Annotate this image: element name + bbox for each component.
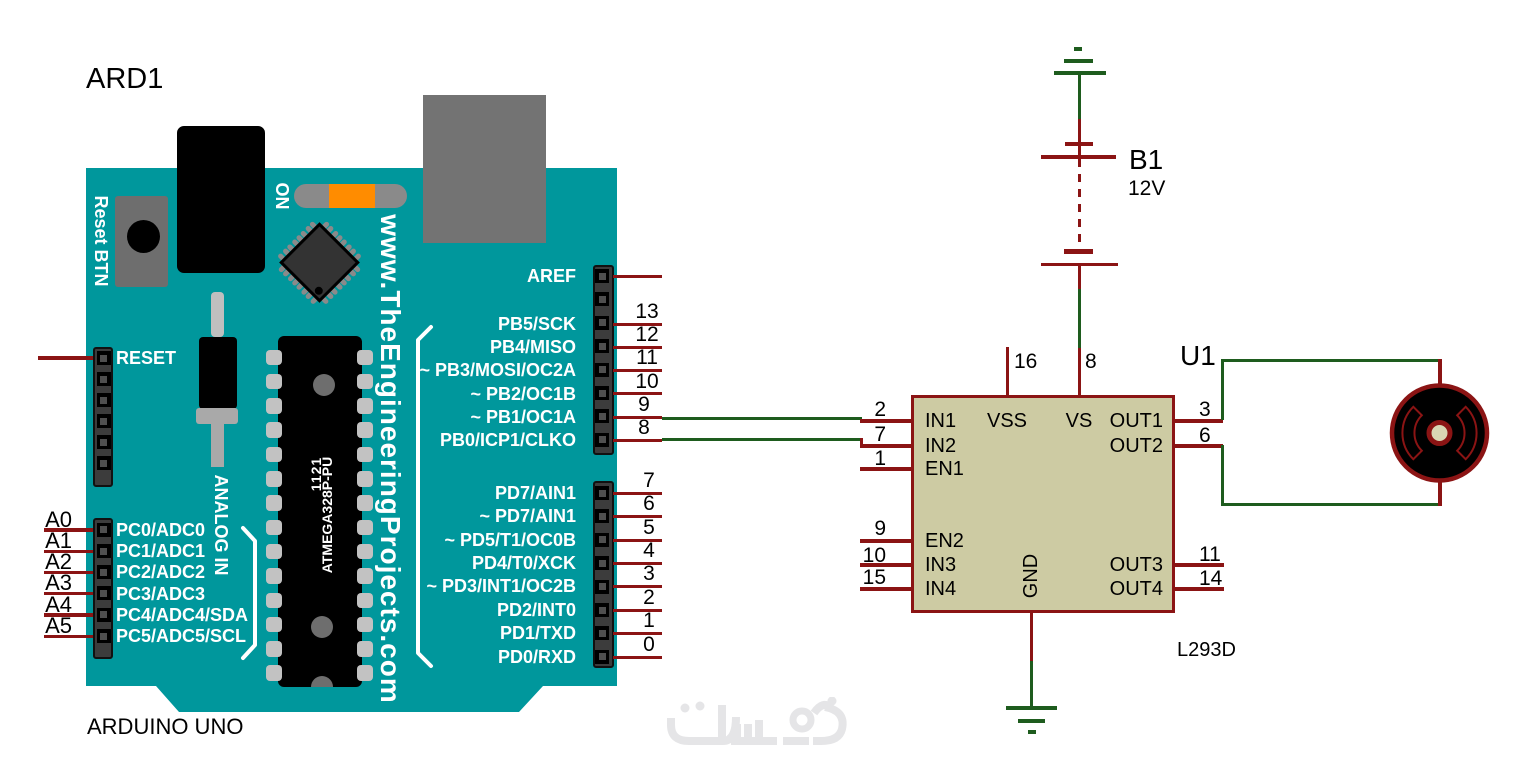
- pin OUT4 stub U1: [1175, 587, 1224, 591]
- label 12: [627, 324, 667, 346]
- label 5: [629, 517, 669, 539]
- power symbol top (ground flipped): [1054, 71, 1106, 75]
- header ANALOG A0-A5: [93, 518, 113, 659]
- pin 7 stub: [613, 492, 662, 495]
- capacitor rod: [211, 292, 224, 337]
- label pin16: [1014, 351, 1054, 373]
- wire power to battery green: [1078, 73, 1081, 119]
- label VS: [1044, 410, 1114, 433]
- battery B1: [1065, 142, 1093, 147]
- label PD0/RXD: [376, 648, 576, 667]
- DIP chip pads left: [266, 350, 282, 366]
- wire A3: [44, 592, 93, 596]
- label A2: [30, 551, 72, 573]
- pin IN1 stub U1: [860, 419, 911, 423]
- pin 2 stub: [613, 609, 662, 612]
- pin 13 stub: [613, 323, 662, 326]
- label PD7/AIN1: [376, 484, 576, 503]
- label PC3/ADC3: [116, 585, 205, 604]
- pin 8 stub: [613, 439, 662, 442]
- label 10: [627, 371, 667, 393]
- reset button: [115, 196, 168, 287]
- label PD1/TXD: [376, 624, 576, 643]
- DIP chip circles: [313, 374, 335, 396]
- wire OUT2 to motor: vertical down: [1221, 445, 1224, 506]
- label pin8: [1085, 351, 1125, 373]
- label PB5/SCK: [376, 315, 576, 334]
- label PB4/MISO: [376, 338, 576, 357]
- label RESET: [116, 349, 176, 368]
- label pin3: [1199, 399, 1239, 421]
- motor top stub: [1438, 359, 1442, 387]
- wire A2: [44, 571, 93, 575]
- label OUT2: [1063, 435, 1163, 458]
- label IN4: [925, 578, 956, 601]
- label ARD1: [86, 63, 163, 96]
- pin 8 stub VS: [1078, 348, 1081, 395]
- pin AREF stub: [613, 275, 662, 278]
- pin OUT3 stub U1: [1175, 563, 1224, 567]
- label IN3: [925, 554, 956, 577]
- label PC1/ADC1: [116, 542, 205, 561]
- capacitor body: [199, 337, 237, 409]
- label OUT4: [1063, 578, 1163, 601]
- label PB3/MOSI/OC2A: [376, 361, 576, 380]
- bracket analog group: [238, 522, 263, 664]
- wire OUT1 to motor: vertical up: [1221, 359, 1224, 420]
- label 1: [629, 610, 669, 632]
- pin IN3 stub U1: [860, 563, 911, 567]
- SMD chip diamond: [283, 226, 355, 298]
- motor bottom stub: [1438, 478, 1442, 506]
- ground symbol bottom: [1006, 706, 1057, 710]
- label PD3/INT1/OC2B: [376, 577, 576, 596]
- pin OUT1 stub U1: [1175, 419, 1223, 423]
- label pin2: [846, 399, 886, 421]
- label PC0/ADC0: [116, 521, 205, 540]
- bracket digital group: [412, 322, 437, 672]
- DIP chip ATMEGA328P body: [278, 336, 362, 688]
- U1 L293D body: [911, 395, 1175, 613]
- pin 4 stub: [613, 562, 662, 565]
- label EN1: [925, 458, 964, 481]
- label PC2/ADC2: [116, 563, 205, 582]
- wire A4: [44, 613, 93, 617]
- pin 5 stub: [613, 539, 662, 542]
- label IN2: [925, 435, 956, 458]
- watermark: [665, 697, 855, 752]
- pin EN2 stub U1: [860, 539, 911, 543]
- label PD5/T1/OC0B: [376, 531, 576, 550]
- wire A1: [44, 550, 93, 554]
- label pin10: [846, 545, 886, 567]
- label 6: [629, 493, 669, 515]
- LED orange: [329, 184, 375, 208]
- U1 pin stubs top: VSS 16: [1006, 347, 1009, 395]
- label PC5/ADC5/SCL: [116, 627, 246, 646]
- label IN1: [925, 410, 956, 433]
- pin 3 stub: [613, 585, 662, 588]
- label pin15: [846, 567, 886, 589]
- label U1: [1180, 340, 1216, 372]
- header RESET (J): [93, 347, 113, 487]
- label A0: [30, 509, 72, 531]
- USB connector: [423, 95, 546, 243]
- label PB1/OC1A: [376, 408, 576, 427]
- label OUT3: [1063, 554, 1163, 577]
- label VSS: [972, 410, 1042, 433]
- header digital lower (0..7): [593, 481, 614, 668]
- label ARDUINO UNO: [87, 714, 243, 740]
- label www.TheEngineeringProjects.com: [390, 458, 392, 460]
- label PD2/INT0: [376, 601, 576, 620]
- wire A0: [44, 528, 93, 532]
- label PD4/T0/XCK: [376, 554, 576, 573]
- header digital upper (8..13,AREF): [593, 265, 614, 455]
- label 3: [629, 563, 669, 585]
- wire jog IN2: [860, 438, 863, 448]
- label ATMEGA328P-PU: [315, 473, 317, 475]
- label PB2/OC1B: [376, 385, 576, 404]
- label A1: [30, 530, 72, 552]
- label 2: [629, 587, 669, 609]
- label ON: [281, 195, 283, 197]
- pin OUT2 stub U1: [1175, 444, 1223, 448]
- label EN2: [925, 530, 964, 553]
- label 11: [627, 347, 667, 369]
- label PB0/ICP1/CLKO: [376, 431, 576, 450]
- wire top horizontal: [1221, 359, 1442, 362]
- Arduino UNO board ARD1 body: [86, 168, 617, 712]
- label pin1: [846, 448, 886, 470]
- pin IN2 stub U1: [860, 444, 911, 448]
- label Reset BTN: [100, 240, 102, 242]
- label A5: [30, 615, 72, 637]
- label 8: [624, 417, 664, 439]
- wire pin9 to IN1 green: [662, 417, 862, 420]
- pin 12 stub: [613, 346, 662, 349]
- label OUT1: [1063, 410, 1163, 433]
- label AREF: [376, 267, 576, 286]
- label PD7/AIN1b: [376, 507, 576, 526]
- wire GND green: [1030, 661, 1033, 709]
- wire A5: [44, 635, 93, 639]
- label B1: [1129, 144, 1163, 176]
- label A4: [30, 594, 72, 616]
- label L293D: [1177, 639, 1236, 662]
- label A3: [30, 572, 72, 594]
- regulator tab: [196, 408, 238, 424]
- motor M1: [1385, 378, 1495, 488]
- label 13: [627, 301, 667, 323]
- label 0: [629, 634, 669, 656]
- label pin6: [1199, 425, 1239, 447]
- pin IN4 stub U1: [860, 587, 911, 591]
- wire pin8 to IN2 green: [662, 438, 862, 441]
- pin 10 stub: [613, 392, 662, 395]
- label pin11: [1199, 544, 1239, 566]
- pin 6 stub: [613, 515, 662, 518]
- label 4: [629, 540, 669, 562]
- label 12V: [1128, 177, 1165, 201]
- wire bottom horizontal: [1221, 503, 1442, 506]
- wire battery to VS green: [1078, 289, 1081, 348]
- pin 9 stub: [613, 416, 662, 419]
- label 7: [629, 470, 669, 492]
- label 9: [624, 394, 664, 416]
- power jack: [177, 126, 265, 273]
- pin 1 stub: [613, 632, 662, 635]
- pin 11 stub: [613, 369, 662, 372]
- wire to RESET pin: [38, 356, 93, 360]
- label PC4/ADC4/SDA: [116, 606, 248, 625]
- label GND: [1030, 575, 1032, 577]
- label pin9: [846, 518, 886, 540]
- pin EN1 stub U1: [860, 467, 911, 471]
- label ANALOG IN: [220, 524, 222, 526]
- pin 0 stub: [613, 656, 662, 659]
- label pin14: [1199, 568, 1239, 590]
- U1 pin stub bottom GND: [1030, 613, 1033, 661]
- LED pill: [294, 184, 407, 208]
- label pin7: [846, 424, 886, 446]
